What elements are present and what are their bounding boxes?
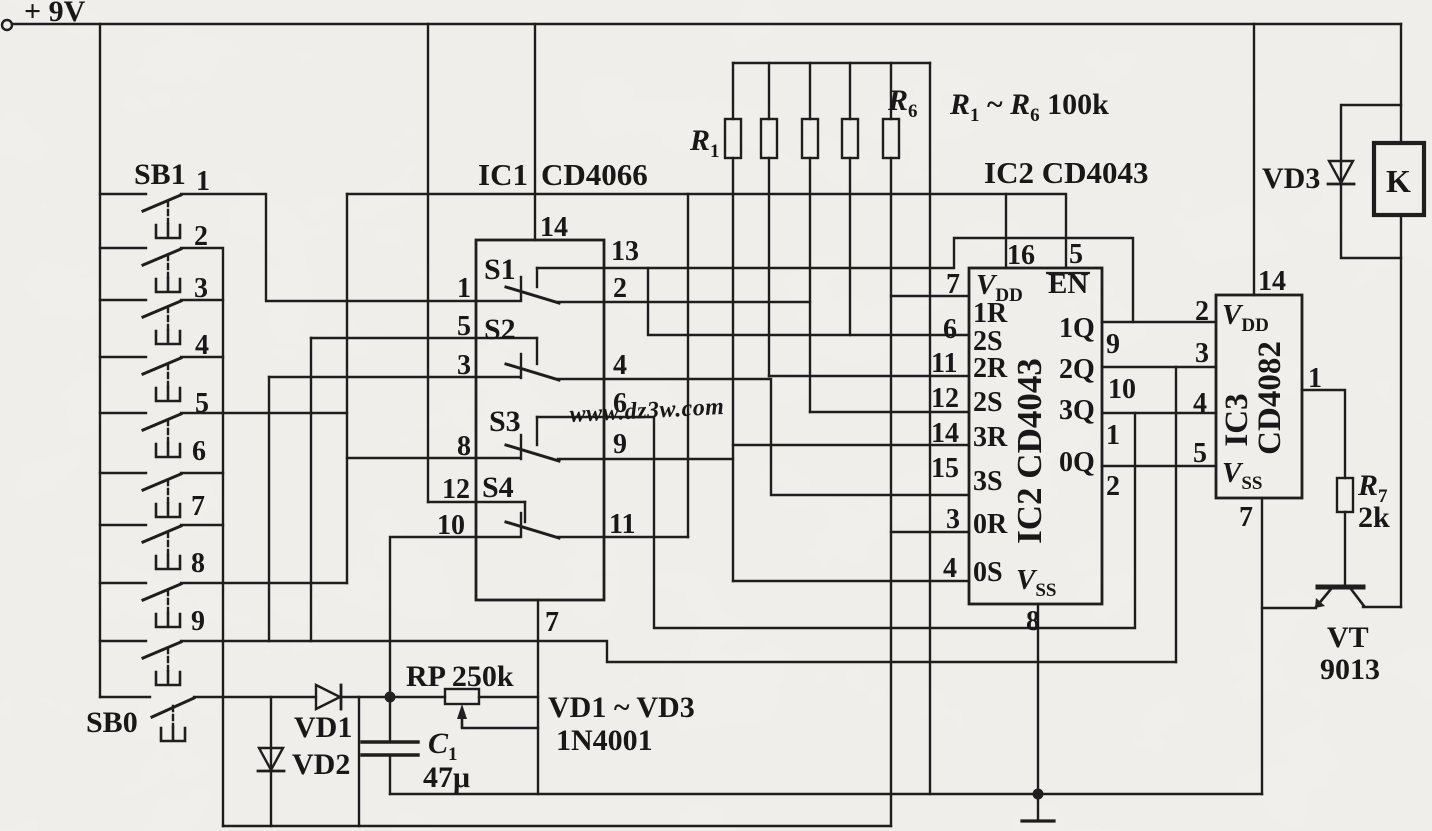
svg-text:1: 1 bbox=[196, 166, 210, 197]
svg-text:3: 3 bbox=[194, 273, 208, 304]
wire VD1 to RP bbox=[341, 696, 445, 698]
svg-text:4: 4 bbox=[1193, 388, 1207, 419]
svg-text:6: 6 bbox=[192, 436, 206, 467]
svg-text:14: 14 bbox=[1258, 266, 1286, 297]
wire IC1 pin13 control from 1Q bbox=[537, 238, 1133, 322]
svg-text:10: 10 bbox=[1108, 374, 1136, 405]
pushbutton SB0 bbox=[100, 697, 194, 741]
svg-text:2: 2 bbox=[194, 221, 208, 252]
pushbutton SB1-6 bbox=[100, 473, 181, 517]
power terminal +9V bbox=[2, 20, 12, 30]
svg-text:16: 16 bbox=[1007, 240, 1035, 271]
wire IC1 pin12 control bbox=[428, 501, 525, 503]
pushbutton SB1-8 bbox=[100, 583, 181, 627]
wire pin11 riser to EN bus bbox=[687, 194, 689, 537]
svg-text:3: 3 bbox=[1195, 338, 1209, 369]
wire VT emitter to ground riser bbox=[1262, 607, 1316, 609]
wire right supply drop to relay K bbox=[1400, 24, 1402, 143]
svg-text:K: K bbox=[1386, 163, 1411, 199]
svg-text:1: 1 bbox=[1308, 363, 1322, 394]
svg-text:3: 3 bbox=[946, 504, 960, 535]
svg-text:CD4082: CD4082 bbox=[1252, 341, 1288, 455]
wire IC1 pin11 output bbox=[558, 536, 688, 538]
wire IC2 pin8 ground bbox=[1037, 604, 1039, 794]
wire +9V top rail bbox=[12, 23, 1401, 25]
diode VD2 bbox=[258, 697, 284, 826]
wire R3 to 2S bbox=[810, 411, 969, 413]
svg-text:11: 11 bbox=[609, 509, 635, 540]
pushbutton SB1-9 bbox=[100, 641, 181, 685]
wire row1 to IC1 pin1 bbox=[181, 194, 519, 301]
svg-text:5: 5 bbox=[1069, 239, 1083, 270]
relay K box bbox=[1374, 143, 1424, 215]
svg-text:2R: 2R bbox=[973, 353, 1008, 384]
resistor R6 leg bbox=[929, 63, 931, 794]
svg-text:8: 8 bbox=[191, 548, 205, 579]
wire rows 5/8 riser to IC1 pin8 bbox=[346, 194, 348, 583]
wire R5 to 1R bbox=[891, 295, 969, 297]
svg-text:1R: 1R bbox=[973, 298, 1008, 329]
wire 3Q to IC3 pin4 bbox=[1102, 412, 1216, 414]
wire 1Q to IC3 pin2 bbox=[1102, 321, 1216, 323]
svg-text:14: 14 bbox=[931, 418, 959, 449]
wire IC3 pin7 ground bbox=[1261, 498, 1263, 794]
svg-text:3: 3 bbox=[457, 350, 471, 381]
switch S1 bbox=[506, 268, 559, 303]
svg-text:7: 7 bbox=[1239, 502, 1253, 533]
wire IC1 pin6 control from 3Q bbox=[537, 413, 1135, 628]
svg-text:4: 4 bbox=[943, 553, 957, 584]
svg-text:11: 11 bbox=[931, 348, 957, 379]
resistor R1 bbox=[725, 63, 741, 581]
svg-text:2: 2 bbox=[1106, 471, 1120, 502]
pushbutton SB1-5 bbox=[100, 413, 181, 457]
wire IC3 pin 14 supply bbox=[1253, 24, 1255, 295]
svg-text:2S: 2S bbox=[973, 387, 1003, 418]
svg-text:S2: S2 bbox=[484, 313, 516, 346]
wire row3 bbox=[181, 299, 223, 301]
svg-text:SB1: SB1 bbox=[134, 158, 186, 191]
svg-text:CD4066: CD4066 bbox=[541, 157, 648, 192]
svg-text:13: 13 bbox=[611, 236, 639, 267]
svg-text:4: 4 bbox=[195, 330, 209, 361]
svg-text:0Q: 0Q bbox=[1059, 447, 1095, 478]
svg-text:7: 7 bbox=[946, 269, 960, 300]
wire IC1 pin 14 supply bbox=[534, 24, 536, 240]
wire row2 column common bbox=[181, 248, 223, 826]
wire row7 bbox=[181, 524, 223, 526]
diode VD1 bbox=[316, 685, 341, 709]
svg-text:3S: 3S bbox=[973, 466, 1003, 497]
svg-text:6: 6 bbox=[943, 314, 957, 345]
wire R5 to 0R bbox=[891, 531, 969, 533]
wire row6 bbox=[181, 472, 223, 474]
wire left supply rail bbox=[99, 24, 101, 697]
svg-text:IC2 CD4043: IC2 CD4043 bbox=[984, 155, 1148, 190]
wire row5 bbox=[181, 412, 347, 414]
wire R1 to 0S bbox=[733, 580, 969, 582]
resistor R7 bbox=[1337, 478, 1353, 585]
svg-text:12: 12 bbox=[442, 474, 470, 505]
wire SB0 riser to bottom rail bbox=[358, 697, 360, 826]
wire VT collector to relay bbox=[1363, 606, 1401, 608]
svg-text:0S: 0S bbox=[973, 557, 1003, 588]
svg-text:SB0: SB0 bbox=[86, 706, 138, 739]
wire SB0 node row bbox=[194, 696, 316, 698]
wire IC1 pin5 control bbox=[311, 337, 537, 339]
junction timing node bbox=[385, 692, 396, 703]
svg-text:RP 250k: RP 250k bbox=[406, 660, 514, 693]
wire IC1 pin2 output to R3 bbox=[558, 301, 810, 303]
wire 0Q to IC3 pin5 bbox=[1102, 465, 1216, 467]
svg-text:2k: 2k bbox=[1358, 501, 1390, 534]
resistor R2 bbox=[761, 63, 777, 376]
IC3 CD4082 box bbox=[1216, 295, 1302, 498]
transistor VT 9013 bbox=[1315, 587, 1364, 608]
svg-text:2: 2 bbox=[1195, 296, 1209, 327]
svg-text:4: 4 bbox=[613, 350, 627, 381]
svg-text:1N4001: 1N4001 bbox=[556, 724, 653, 757]
wire R2 to 2R bbox=[769, 375, 969, 377]
wire pin13 branch to 1S bbox=[648, 268, 969, 335]
svg-text:VD1 ~ VD3: VD1 ~ VD3 bbox=[548, 691, 695, 724]
svg-text:5: 5 bbox=[457, 311, 471, 342]
wire IC3 pin1 output bbox=[1302, 390, 1345, 478]
pushbutton SB1-7 bbox=[100, 525, 181, 569]
wire 2Q to IC3 pin3 bbox=[1102, 366, 1216, 368]
svg-text:S4: S4 bbox=[482, 471, 514, 504]
svg-text:8: 8 bbox=[1026, 606, 1040, 637]
wire 2Q riser to row9 bus bbox=[1175, 367, 1177, 662]
wire IC1 pin9 output bbox=[558, 458, 733, 460]
svg-text:9: 9 bbox=[191, 606, 205, 637]
svg-text:3R: 3R bbox=[973, 422, 1008, 453]
svg-text:7: 7 bbox=[545, 607, 559, 638]
wire IC1 pin5 riser bbox=[310, 338, 312, 641]
svg-text:S1: S1 bbox=[484, 253, 516, 286]
svg-text:2Q: 2Q bbox=[1059, 354, 1095, 385]
wire resistor top bus bbox=[733, 62, 930, 64]
pushbutton SB1-4 bbox=[100, 357, 181, 401]
svg-text:VT: VT bbox=[1327, 621, 1369, 654]
wire IC2 pin16 supply tap bbox=[1005, 194, 1007, 268]
svg-text:VD2: VD2 bbox=[292, 748, 350, 781]
svg-text:2: 2 bbox=[613, 273, 627, 304]
svg-text:IC3: IC3 bbox=[1219, 393, 1255, 446]
svg-text:5: 5 bbox=[195, 388, 209, 419]
svg-text:8: 8 bbox=[457, 431, 471, 462]
switch S2 bbox=[506, 338, 559, 380]
wire IC1 pin7 ground bbox=[537, 600, 539, 794]
resistor R4 bbox=[842, 63, 858, 335]
pushbutton SB1-1 bbox=[100, 194, 181, 238]
ground symbol bbox=[1022, 794, 1054, 821]
capacitor C1 bbox=[362, 697, 418, 794]
IC2 CD4043 box bbox=[969, 268, 1102, 604]
pushbutton SB1-2 bbox=[100, 248, 181, 292]
pushbutton SB1-3 bbox=[100, 300, 181, 344]
resistor R5 bbox=[883, 63, 899, 826]
svg-text:S3: S3 bbox=[489, 405, 521, 438]
wire row8 bbox=[181, 582, 347, 584]
wire +9V drop to IC1 pin 12 bbox=[427, 24, 429, 502]
svg-text:9: 9 bbox=[613, 429, 627, 460]
svg-text:IC2 CD4043: IC2 CD4043 bbox=[1010, 358, 1049, 544]
IC1 CD4066 box bbox=[476, 240, 604, 600]
svg-text:1Q: 1Q bbox=[1059, 313, 1095, 344]
svg-text:9: 9 bbox=[1106, 329, 1120, 360]
diode VD3 bbox=[1328, 161, 1354, 184]
wire IC1 pin4 output to 3S bbox=[558, 379, 969, 495]
wire IC1 pin8 bbox=[347, 457, 519, 459]
svg-text:3Q: 3Q bbox=[1059, 395, 1095, 426]
svg-text:5: 5 bbox=[1193, 438, 1207, 469]
svg-text:1: 1 bbox=[1106, 420, 1120, 451]
svg-text:1: 1 bbox=[457, 273, 471, 304]
switch S3 bbox=[506, 417, 559, 461]
wire relay bottom drop bbox=[1400, 215, 1402, 607]
switch S4 bbox=[506, 502, 559, 538]
svg-text:12: 12 bbox=[931, 383, 959, 414]
svg-text:9013: 9013 bbox=[1320, 653, 1380, 686]
wire ground bus bbox=[390, 793, 1262, 795]
svg-text:15: 15 bbox=[931, 453, 959, 484]
svg-text:14: 14 bbox=[540, 212, 568, 243]
wire EN bus bbox=[347, 194, 1066, 268]
wire 3R input bbox=[733, 444, 969, 446]
resistor R3 bbox=[802, 63, 818, 412]
svg-text:IC1: IC1 bbox=[478, 157, 528, 192]
wire IC1 pin10 to timing node bbox=[390, 537, 519, 697]
wire row4 bbox=[181, 356, 223, 358]
wire IC1 pin3 bbox=[269, 376, 519, 378]
wire VD3 parallel branch top bbox=[1341, 105, 1401, 258]
svg-text:7: 7 bbox=[191, 491, 205, 522]
wire row9 bus to 2Q riser bbox=[181, 641, 1176, 662]
svg-text:0R: 0R bbox=[973, 509, 1008, 540]
potentiometer RP 250k bbox=[445, 689, 538, 728]
svg-text:10: 10 bbox=[437, 510, 465, 541]
junction IC2 pin8 ground node bbox=[1033, 789, 1044, 800]
svg-text:VD1: VD1 bbox=[294, 711, 352, 744]
svg-text:+ 9V: + 9V bbox=[24, 0, 86, 28]
wire IC1 pin3 riser bbox=[268, 377, 270, 641]
svg-text:47μ: 47μ bbox=[423, 761, 470, 794]
svg-text:VD3: VD3 bbox=[1262, 162, 1320, 195]
wire bottom rail bbox=[223, 825, 891, 827]
